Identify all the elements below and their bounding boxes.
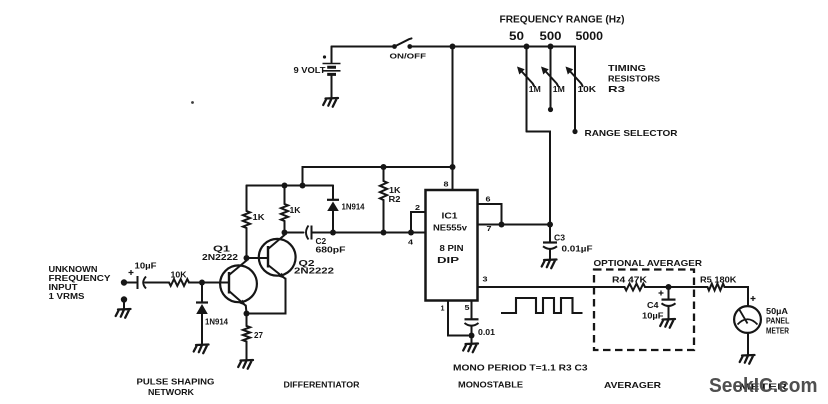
resistor R4 47K [612, 275, 648, 291]
svg-text:ON/OFF: ON/OFF [390, 52, 427, 61]
wire range selector L-link [527, 132, 551, 225]
svg-text:9 VOLT: 9 VOLT [294, 66, 326, 75]
svg-text:DIP: DIP [437, 256, 460, 265]
resistor 1K (Q2 collector load) [281, 186, 301, 232]
capacitor 10uF input [129, 261, 157, 290]
label PULSE SHAPING NETWORK [137, 377, 215, 398]
svg-text:PULSE SHAPING: PULSE SHAPING [137, 377, 215, 387]
svg-text:680pF: 680pF [316, 245, 346, 255]
transistor Q2 2N2222 [259, 235, 335, 279]
wire VCC branch rail [303, 167, 453, 186]
wire emitter bus [247, 279, 286, 314]
wire input to cap [124, 282, 136, 284]
svg-text:10K: 10K [578, 84, 598, 94]
svg-text:3: 3 [483, 275, 488, 284]
svg-text:2N2222: 2N2222 [202, 252, 238, 262]
diode D1 1N914 input clamp [196, 283, 229, 345]
label UNKNOWN FREQUENCY INPUT 1 VRMS [49, 265, 112, 301]
wire Q1 emitter drop [245, 306, 248, 314]
svg-text:TIMING: TIMING [608, 63, 646, 73]
ground (D1) [194, 345, 209, 354]
wire trigger line left [285, 232, 304, 234]
timing resistor R3b 1M (500 range) [541, 47, 565, 108]
wire pin6 link [478, 204, 502, 225]
wire pin8 drop [452, 47, 454, 191]
resistor 27 emitter [243, 314, 263, 361]
svg-text:1K: 1K [290, 206, 301, 215]
wire top rail right [410, 46, 575, 48]
svg-text:NETWORK: NETWORK [148, 387, 195, 397]
ground (input) [116, 309, 131, 318]
node R2 top [381, 164, 387, 170]
timing resistor R3a 1M (50 range) [517, 47, 541, 132]
svg-text:DIFFERENTIATOR: DIFFERENTIATOR [284, 380, 360, 390]
svg-text:RANGE SELECTOR: RANGE SELECTOR [585, 128, 678, 138]
wire 10K to Q1 base [189, 282, 229, 284]
capacitor C2 680pF [306, 226, 346, 255]
svg-text:IC1: IC1 [442, 212, 459, 221]
resistor R5 180K [700, 275, 737, 291]
diode D2 1N914 (catch diode) [327, 186, 365, 232]
svg-text:1N914: 1N914 [205, 318, 229, 327]
wire top rail left [332, 46, 395, 48]
svg-text:1: 1 [441, 304, 445, 313]
svg-text:R5 180K: R5 180K [700, 275, 737, 285]
node Q2 collector [282, 230, 288, 236]
wire pin7 line [478, 224, 551, 226]
node pin7/C3/selector [547, 222, 553, 228]
node pot3 open contact RANGE SELECTOR [572, 129, 577, 134]
waveform pulse train [501, 298, 583, 313]
resistor 1K (Q1 collector load) [243, 186, 265, 256]
node pin1/pin5 cap [469, 333, 475, 339]
timing resistor R3c 10K (5000 range) [566, 47, 598, 130]
svg-text:4: 4 [408, 238, 414, 247]
node pot2 open contact [548, 107, 553, 112]
svg-text:10K: 10K [171, 270, 188, 280]
svg-text:MONO PERIOD T=1.1 R3 C3: MONO PERIOD T=1.1 R3 C3 [453, 363, 588, 373]
node 1K2 top [282, 183, 288, 189]
node rail/pot2 [548, 44, 554, 50]
ground (C4) [660, 319, 675, 328]
svg-text:RESISTORS: RESISTORS [608, 74, 660, 84]
svg-text:C4: C4 [647, 300, 659, 310]
svg-text:5000: 5000 [576, 29, 604, 43]
svg-text:R3: R3 [608, 84, 625, 94]
wire collector rail [247, 185, 334, 187]
node rail drop [300, 183, 306, 189]
wire cap to 10K [145, 282, 169, 284]
transistor Q1 2N2222 [202, 244, 257, 306]
svg-text:50µA: 50µA [766, 306, 788, 316]
node base/diode junction [199, 280, 205, 286]
resistor 10K input [169, 270, 189, 286]
svg-text:OPTIONAL AVERAGER: OPTIONAL AVERAGER [594, 258, 703, 268]
svg-text:1K: 1K [389, 186, 401, 195]
stray mark [191, 101, 194, 104]
node pins 2-4 tie [408, 230, 414, 236]
ground (meter) [740, 355, 755, 364]
svg-text:0.01µF: 0.01µF [562, 245, 593, 254]
wire pin2 link [411, 212, 426, 233]
battery B1 9 VOLT [294, 47, 341, 98]
svg-text:PANEL: PANEL [766, 316, 790, 326]
svg-text:5: 5 [465, 303, 470, 312]
svg-text:NE555ᴠ: NE555ᴠ [433, 224, 468, 233]
svg-text:FREQUENCY: FREQUENCY [49, 274, 112, 283]
svg-text:INPUT: INPUT [49, 283, 78, 292]
node input terminal [121, 279, 127, 285]
svg-text:50: 50 [509, 29, 524, 43]
node pin6/pin7 [499, 222, 505, 228]
wire pin4 stub [411, 232, 426, 234]
capacitor C4 10uF [642, 287, 676, 321]
svg-text:6: 6 [486, 195, 491, 204]
wire pin3 output [478, 286, 625, 288]
switch S1 ON/OFF [390, 38, 427, 60]
svg-text:1M: 1M [529, 84, 541, 94]
svg-text:METER: METER [766, 326, 789, 336]
svg-text:2N2222: 2N2222 [294, 266, 334, 276]
ground (pin5) [463, 344, 478, 353]
node VCC junction to pin 8 [450, 44, 456, 50]
node emitter junction [244, 311, 250, 317]
svg-text:MONOSTABLE: MONOSTABLE [458, 380, 523, 390]
svg-text:R4 47K: R4 47K [612, 275, 648, 285]
meter M1 50uA panel meter [734, 296, 789, 336]
ground (battery) [323, 98, 338, 107]
svg-text:R2: R2 [389, 195, 402, 204]
svg-text:AVERAGER: AVERAGER [604, 380, 661, 390]
wire meter to ground [747, 333, 749, 355]
ground (C3) [542, 260, 557, 269]
node pin8/rail [450, 164, 456, 170]
node D2 bottom [330, 230, 336, 236]
timer IC1 NE555V 8 PIN DIP [426, 190, 478, 301]
ground (27 ohm) [238, 360, 253, 369]
wire input ground stub [123, 302, 125, 309]
svg-text:10µF: 10µF [135, 261, 157, 271]
wire Q1 collector to node [246, 256, 248, 261]
svg-text:1K: 1K [253, 213, 265, 222]
svg-text:1 VRMS: 1 VRMS [49, 292, 86, 301]
wire to meter [725, 287, 749, 306]
node rail/pot1 [524, 44, 530, 50]
svg-text:1M: 1M [553, 84, 565, 94]
svg-text:2: 2 [415, 203, 420, 212]
wire Q2 base link [247, 257, 269, 259]
node input ground terminal [121, 296, 127, 302]
capacitor C3 0.01uF [543, 225, 593, 260]
dashed averager box [594, 270, 694, 351]
svg-text:C3: C3 [554, 233, 565, 243]
svg-text:FREQUENCY RANGE (Hᴢ): FREQUENCY RANGE (Hᴢ) [500, 15, 625, 26]
capacitor 0.01 (pin5) [465, 301, 496, 344]
svg-text:10µF: 10µF [642, 311, 664, 321]
svg-text:0.01: 0.01 [478, 328, 496, 337]
node R2 bottom [381, 230, 387, 236]
wire averager mid [645, 286, 708, 288]
svg-text:27: 27 [254, 330, 263, 340]
wire pin1 to ground bus [448, 301, 468, 336]
resistor R2 1K [380, 167, 401, 231]
label TIMING RESISTORS R3 [608, 63, 660, 94]
node C4 top [666, 284, 672, 290]
svg-text:500: 500 [540, 29, 562, 43]
svg-text:SeekIC.com: SeekIC.com [709, 374, 818, 397]
svg-text:UNKNOWN: UNKNOWN [49, 265, 98, 274]
svg-text:8: 8 [444, 180, 449, 189]
node Q1 collector / Q2 base [244, 255, 250, 261]
svg-text:8 PIN: 8 PIN [440, 244, 464, 253]
wire trigger line right [313, 232, 412, 234]
svg-text:1N914: 1N914 [342, 203, 366, 212]
